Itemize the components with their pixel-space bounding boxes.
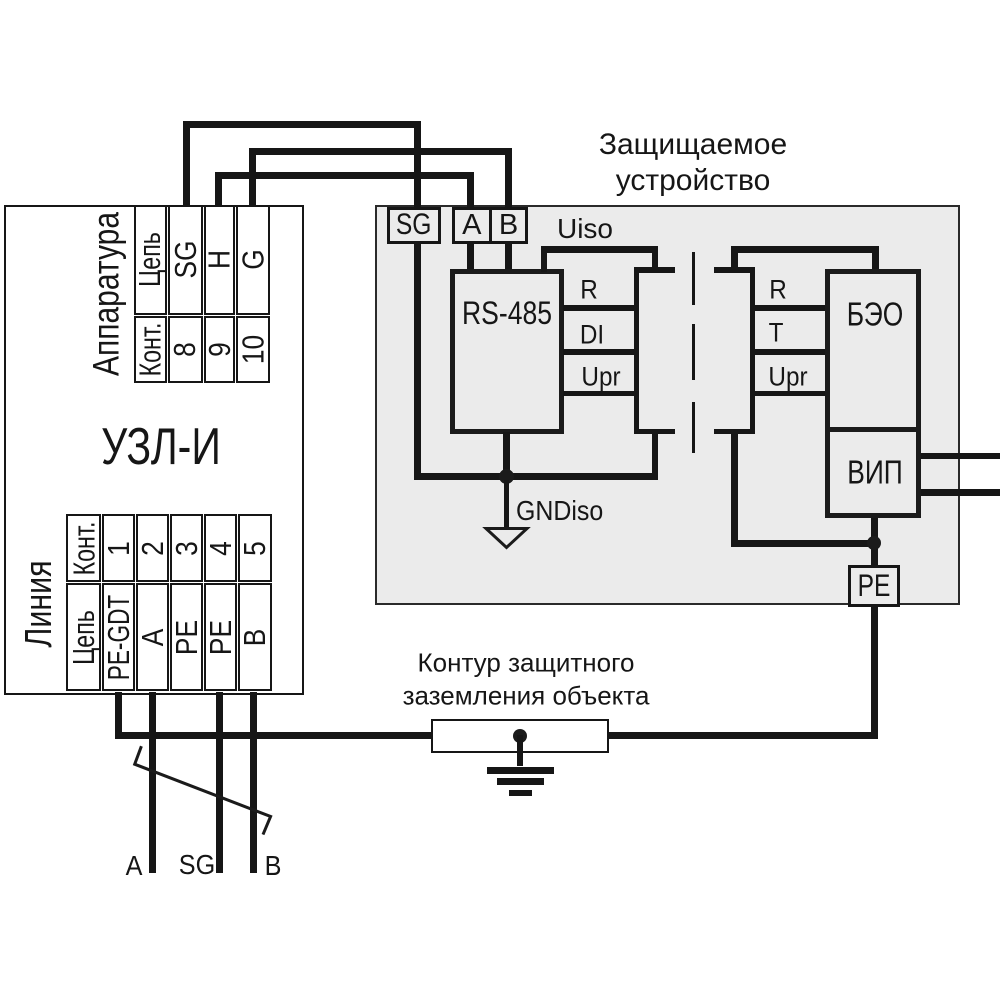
wire line A [149,692,156,873]
wire VIP bottom to PE [871,518,878,567]
terminal G (cell) [236,205,270,315]
ground bar (Контур заземления) [431,719,609,753]
Uiso bracket right [731,246,738,270]
GNDiso ground triangle [486,529,527,548]
row line R (right) [755,305,827,311]
label Линия (rotated) [20,560,58,647]
RS-485 block [450,269,564,434]
cell Цепь bottom [66,583,101,691]
label SG (line) [179,851,215,879]
label A (line) [126,852,143,880]
label Upr right [768,364,807,391]
isolation column left [634,267,639,434]
row line T (right) [755,349,827,355]
junction GNDiso [499,469,514,484]
BEO block (БЭО) [825,269,922,432]
pin 1 (cell) [102,514,135,582]
pin 4 (cell) [204,514,237,582]
VIP block (ВИП) [825,427,922,518]
wire line SG [216,692,223,873]
label Защищаемое устройство [599,127,787,199]
label B (line) [265,852,282,880]
cell Конт. [134,316,167,383]
earth symbol [487,767,554,774]
wire pin1 to bus [115,692,122,739]
terminal block bottom: cell Конт. [66,514,101,582]
terminal A (cell) [136,583,169,691]
terminal H (cell) [204,205,236,315]
wire PE to ground bus [871,605,878,739]
label Контур защитного заземления объекта [403,647,650,712]
label DI left [580,322,604,349]
label GNDiso [516,497,603,525]
terminal PE (cell 3) [170,583,203,691]
pin 9 (cell) [204,316,236,383]
junction PE [867,536,881,550]
label R left [580,276,598,303]
device terminal A [452,207,493,245]
terminal PE (cell 4) [204,583,237,691]
isolation dashed line [692,252,695,305]
label УЗЛ-И [101,421,221,473]
wire SG (УЗЛ-И pin SG to device SG) [183,121,190,205]
pin 8 (cell) [168,316,203,383]
wire column-bottom to PE junction [731,432,738,547]
wire H to A [215,172,222,206]
row line DI (left) [563,349,637,355]
pin 2 (cell) [136,514,169,582]
GNDiso bus [414,473,659,480]
device terminal B [489,207,528,245]
wire to GNDiso ground [504,480,510,528]
row line Upr (left) [563,391,637,397]
isolation column right [750,267,755,434]
label T right [769,320,784,347]
label Upr left [581,364,620,391]
wire line B [250,692,257,873]
box UZL-I (УЗЛ-И device outline) [4,205,304,695]
terminal SG (cell) [168,205,203,315]
device terminal SG [387,207,442,245]
pin 3 (cell) [170,514,203,582]
Uiso bracket [541,246,548,272]
device terminal PE [848,565,901,608]
junction on ground bar [513,729,527,743]
cable bundle slash [135,746,271,834]
wire G to B [249,148,256,205]
row line Upr (right) [755,391,827,397]
row line R (left) [563,305,637,311]
terminal block top: cell Цепь [134,205,167,315]
label R right [769,277,787,304]
wire RS-485 bottom to bus [503,432,510,476]
label Uiso [557,215,613,243]
label Аппаратура (rotated) [87,212,125,376]
VIP output wires [921,453,1000,460]
wire bar to earth [517,735,523,766]
terminal PE-GDT (cell) [102,583,135,691]
pin 10 (cell) [236,316,270,383]
bus left (PE bus) [115,732,432,739]
terminal B (cell 5) [238,583,272,691]
pin 5 (cell) [238,514,272,582]
protected device enclosure (Защищаемое устройство) [375,205,960,605]
